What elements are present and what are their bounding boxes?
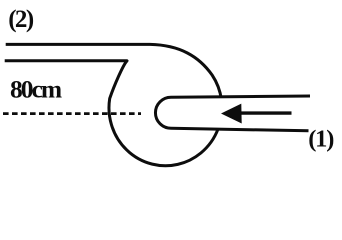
svg-text:(1): (1) — [308, 125, 334, 152]
arrow head pointing left — [221, 104, 242, 124]
inner tube (1) stadium: walls + rounded cap, white filled to hide circle — [155, 96, 310, 131]
loop track outer spiral (top tube walls merging into circle) — [5, 44, 222, 165]
svg-text:(2): (2) — [8, 6, 34, 33]
svg-text:80cm: 80cm — [10, 75, 62, 104]
arrow shaft — [240, 111, 292, 114]
dashed diameter line — [3, 112, 141, 115]
